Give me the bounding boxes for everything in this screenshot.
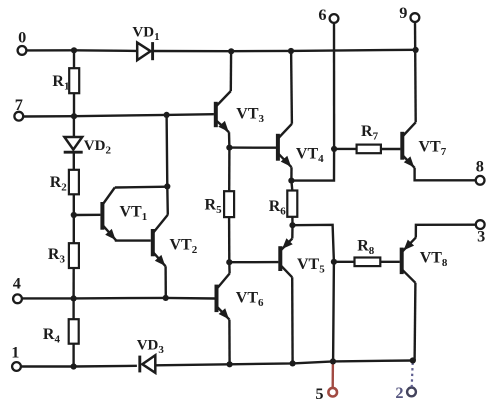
wire terminal 6 drop (333, 23, 336, 149)
resistor R7 (357, 123, 381, 153)
svg-text:4: 4 (13, 274, 21, 293)
wire terminal 3 to VT8 emitter (416, 225, 476, 238)
wire VT4 base lead (229, 146, 276, 148)
junction bottom rail / terminal 5 (330, 358, 336, 364)
junction R6 bottom / VT5 emitter (289, 222, 295, 228)
diode VD2 (64, 137, 112, 156)
svg-text:VD2: VD2 (84, 138, 112, 157)
wire R2 bottom lead (73, 194, 75, 243)
wire R1 top lead (73, 50, 75, 68)
svg-text:R5: R5 (205, 197, 223, 217)
svg-text:2: 2 (395, 383, 403, 402)
wire R4 bottom lead (72, 344, 74, 367)
svg-text:6: 6 (318, 5, 326, 24)
junction VT1 collector / branch (164, 183, 170, 189)
junction VT3 emitter / R5 / VT4 base (226, 145, 232, 151)
wire R5 bottom lead (228, 217, 231, 262)
junction left column / VT1 base (71, 212, 77, 218)
wire bottom rail left (21, 365, 137, 368)
terminal 6 (318, 5, 338, 24)
transistor VT7 (402, 122, 476, 180)
transistor VT1 (102, 187, 167, 241)
svg-text:R6: R6 (269, 198, 287, 218)
junction node branch / R8 (331, 259, 337, 265)
svg-text:R3: R3 (48, 246, 66, 266)
wire VD2 bottom lead (73, 152, 75, 170)
wire R7 left lead (334, 148, 357, 150)
svg-text:R2: R2 (50, 174, 68, 194)
transistor VT6 (217, 262, 265, 364)
wire R5 top lead (228, 148, 231, 192)
junction bottom rail / left column (71, 363, 77, 369)
svg-text:3: 3 (477, 227, 485, 246)
terminal 4 (13, 274, 22, 304)
wire R8 left lead (334, 261, 355, 263)
junction VT4 emitter / R6 (288, 178, 294, 184)
svg-text:VT3: VT3 (236, 105, 264, 125)
wire R7 right lead (381, 148, 401, 150)
junction rail7 / left column (71, 113, 77, 119)
wire R3 bottom lead (72, 268, 74, 298)
wire R6 bottom to R8 branch (293, 225, 334, 361)
junction top rail / R1 (71, 47, 77, 53)
terminal 9 (399, 3, 419, 22)
terminal 7 (14, 95, 23, 121)
junction bottom rail / VT5 collector (290, 360, 296, 366)
transistor VT5 (280, 225, 325, 363)
svg-text:VT4: VT4 (296, 145, 324, 165)
resistor R8 (355, 238, 381, 267)
resistor R4 (43, 319, 79, 346)
terminal 2 (395, 363, 415, 403)
svg-text:VD3: VD3 (137, 337, 165, 356)
wire branch rail7 to VT1 collector (167, 115, 168, 215)
terminal 5 (315, 361, 337, 402)
junction node6 / R7 (331, 146, 337, 152)
svg-text:R4: R4 (43, 326, 61, 346)
terminal 0 (18, 27, 27, 54)
terminal 8 (476, 156, 485, 184)
junction top rail / terminal 9 (413, 47, 419, 53)
junction rail4 / left column (71, 295, 77, 301)
wire R6 bottom lead (291, 217, 294, 225)
junction rail7 / VT1-VT2 branch (164, 112, 170, 118)
resistor R1 (52, 68, 79, 93)
junction bottom rail / VT6 emitter (227, 361, 233, 367)
svg-text:7: 7 (15, 95, 23, 114)
wire VT1 base lead (76, 214, 101, 217)
junction R5 bottom / VT5 base / VT6 collector (226, 259, 232, 265)
wire VT4 emitter to node 6 branch (291, 149, 334, 181)
wire VD2 top lead (73, 116, 75, 137)
svg-text:0: 0 (18, 27, 26, 46)
transistor VT3 (216, 51, 265, 147)
transistor VT4 (278, 51, 324, 180)
wire terminal 9 drop (414, 21, 417, 122)
diode VD3 (137, 337, 165, 373)
transistor VT2 (153, 215, 198, 298)
svg-text:VT7: VT7 (419, 138, 447, 158)
wire R1 bottom lead (73, 93, 75, 116)
junction top rail / VT3 collector (228, 48, 234, 54)
svg-text:VD1: VD1 (132, 25, 159, 44)
svg-text:1: 1 (11, 343, 19, 362)
resistor R2 (50, 170, 79, 195)
svg-text:VT8: VT8 (420, 249, 448, 269)
wire R6 top lead (290, 181, 293, 191)
svg-text:9: 9 (399, 3, 407, 22)
svg-text:VT6: VT6 (236, 290, 264, 310)
terminal 1 (11, 343, 21, 371)
wire top rail left (27, 49, 137, 52)
wire R4 top lead (72, 298, 74, 319)
junction bottom rail / VT8 collector (410, 357, 416, 363)
junction top rail / VT4 collector (288, 48, 294, 54)
resistor R5 (205, 191, 235, 217)
wire top rail right (152, 50, 416, 51)
transistor VT8 (402, 238, 448, 361)
junction rail4 / VT2 emitter (163, 295, 169, 301)
svg-text:VT5: VT5 (297, 256, 325, 276)
diode VD1 (132, 25, 159, 61)
wire bottom rail right (156, 361, 415, 366)
svg-text:R1: R1 (52, 73, 69, 93)
wire R8 right lead (380, 261, 400, 263)
svg-text:5: 5 (315, 384, 323, 403)
svg-text:VT1: VT1 (120, 204, 148, 224)
svg-text:R8: R8 (357, 238, 375, 258)
svg-text:8: 8 (476, 156, 484, 175)
wire VT5 base lead (229, 261, 278, 264)
wire rail 7 (24, 114, 214, 116)
svg-text:VT2: VT2 (170, 236, 198, 256)
terminal 3 (476, 220, 485, 245)
wire rail 4 (22, 297, 215, 300)
resistor R3 (48, 243, 79, 268)
resistor R6 (269, 191, 298, 218)
svg-text:R7: R7 (361, 123, 379, 143)
